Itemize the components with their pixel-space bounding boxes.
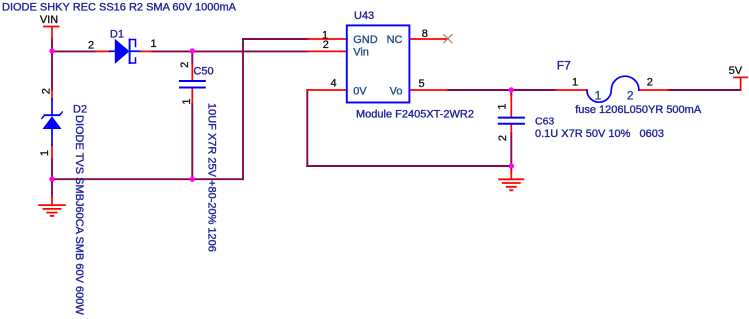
svg-text:5: 5 <box>418 78 424 90</box>
svg-text:2: 2 <box>179 62 191 68</box>
svg-text:1: 1 <box>497 103 509 109</box>
svg-text:2: 2 <box>323 39 329 51</box>
svg-text:0V: 0V <box>353 85 367 97</box>
svg-text:1: 1 <box>151 38 157 50</box>
svg-text:VIN: VIN <box>40 14 58 26</box>
svg-text:2: 2 <box>88 39 94 51</box>
svg-text:2: 2 <box>41 88 53 94</box>
svg-text:DIODE SHKY REC SS16 R2 SMA 60V: DIODE SHKY REC SS16 R2 SMA 60V 1000mA <box>2 2 237 14</box>
svg-text:Module F2405XT-2WR2: Module F2405XT-2WR2 <box>356 109 474 121</box>
svg-text:D1: D1 <box>110 28 124 40</box>
svg-text:GND: GND <box>353 34 378 46</box>
svg-text:1: 1 <box>572 77 578 89</box>
svg-text:F7: F7 <box>557 58 571 72</box>
svg-text:0.1U X7R 50V 10% 0603: 0.1U X7R 50V 10% 0603 <box>535 128 664 140</box>
svg-text:DIODE TVS SMBJ60CA SMB 60V 600: DIODE TVS SMBJ60CA SMB 60V 600W <box>73 115 85 315</box>
svg-text:Vin: Vin <box>353 47 369 59</box>
svg-text:C63: C63 <box>535 116 554 128</box>
svg-text:NC: NC <box>387 34 403 46</box>
svg-text:fuse 1206L050YR 500mA: fuse 1206L050YR 500mA <box>575 104 702 116</box>
svg-text:2: 2 <box>497 135 509 141</box>
svg-text:1: 1 <box>595 88 602 102</box>
svg-text:8: 8 <box>422 28 428 40</box>
svg-text:1: 1 <box>181 98 193 104</box>
svg-text:D2: D2 <box>73 103 87 115</box>
svg-text:Vo: Vo <box>390 85 403 97</box>
svg-text:1: 1 <box>39 150 51 156</box>
svg-text:10UF X7R 25V +80-20% 1206: 10UF X7R 25V +80-20% 1206 <box>205 103 217 252</box>
svg-text:5V: 5V <box>729 65 743 77</box>
svg-text:2: 2 <box>627 88 634 102</box>
svg-text:U43: U43 <box>354 10 374 22</box>
svg-text:2: 2 <box>647 77 653 89</box>
svg-text:4: 4 <box>330 77 336 89</box>
svg-text:C50: C50 <box>193 66 213 78</box>
